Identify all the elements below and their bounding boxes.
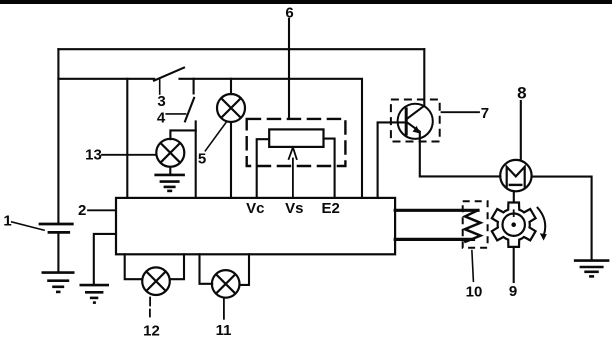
- motor underline bar: [509, 184, 523, 186]
- wire collector drop from top line: [423, 49, 425, 106]
- leader line from label 6 to sensor box: [288, 19, 290, 119]
- wire pot left to Vc pin: [257, 139, 270, 198]
- wiper arrow shaft (Vs): [292, 159, 294, 198]
- gear center dot: [511, 222, 516, 227]
- wire lamp 11 left: [200, 254, 213, 283]
- transistor collector diagonal: [406, 106, 424, 120]
- wire ECU to resistor 10 upper: [395, 209, 478, 212]
- leader for label 7: [442, 111, 480, 113]
- motor 8 circle: [500, 160, 531, 191]
- svg-text:4: 4: [157, 109, 166, 126]
- leader for label 2: [88, 209, 116, 211]
- wire top supply line: [58, 48, 424, 50]
- svg-text:1: 1: [3, 213, 11, 230]
- wire battery-to-top-line vertical: [57, 49, 59, 222]
- wire pot right to E2 pin: [324, 139, 335, 198]
- wire motor right to ground: [532, 177, 592, 260]
- wire ECU to resistor 10 lower: [395, 238, 473, 241]
- transistor Q7 circle: [398, 104, 433, 139]
- wire lamp 11 right: [240, 254, 250, 285]
- lamp 12: [142, 267, 170, 295]
- wire lamp 13 top L-connection: [170, 130, 195, 139]
- resistor R10 zigzag: [465, 210, 481, 242]
- dashed box 6 (throttle sensor): [247, 119, 346, 166]
- potentiometer body: [269, 129, 323, 147]
- ground under ECU left wire: [80, 285, 110, 303]
- wire from label 8 to motor top: [520, 101, 522, 160]
- wire lamp 12 right: [170, 254, 184, 279]
- ECU box 2: [116, 198, 395, 254]
- gear 9 outline: [492, 203, 536, 247]
- rotation arrow arc: [537, 207, 545, 235]
- svg-text:E2: E2: [322, 200, 340, 217]
- wire below gear to label 9: [513, 248, 515, 282]
- transistor dashed box 7: [391, 100, 440, 142]
- wire base from ECU pin to transistor: [378, 122, 404, 197]
- gear shaft segment inside tooth: [513, 209, 515, 217]
- ground at far right (motor return): [574, 261, 610, 277]
- leader for label 12 (broken): [149, 298, 151, 317]
- resistor 10 dashed box: [463, 201, 488, 248]
- wire lamp 13 bottom to ground: [169, 167, 171, 175]
- leader for label 4: [166, 113, 185, 115]
- svg-text:10: 10: [466, 283, 483, 300]
- motor M glyph: [507, 167, 525, 188]
- wire switch 4 to ECU pin: [195, 121, 197, 197]
- svg-text:5: 5: [198, 151, 206, 168]
- wire motor bottom to gear: [513, 191, 515, 201]
- svg-text:3: 3: [157, 93, 165, 110]
- svg-text:2: 2: [78, 202, 86, 219]
- wire lamp 12 left: [125, 254, 143, 279]
- switch 4 blade: [185, 98, 194, 122]
- leader for label 13: [102, 154, 157, 156]
- wire tap x127 down to ECU pin: [126, 79, 128, 198]
- top border bar: [0, 0, 612, 4]
- ground under battery: [42, 273, 75, 292]
- svg-text:12: 12: [143, 323, 160, 340]
- transistor emitter diagonal: [406, 122, 419, 132]
- gear inner circle: [503, 214, 525, 236]
- lamp 5: [217, 94, 245, 122]
- transistor base bar: [405, 107, 408, 135]
- svg-text:9: 9: [509, 283, 517, 300]
- lamp 11: [212, 270, 240, 298]
- leader for label 5: [205, 122, 226, 151]
- leader for label 11: [223, 298, 225, 319]
- lamp 13: [156, 139, 184, 167]
- wire ECU left side to ground: [94, 234, 116, 285]
- wiper arrowhead: [289, 147, 297, 159]
- switch 4 upper stub: [193, 79, 195, 94]
- wire second line left of switch 3: [58, 78, 154, 80]
- wire emitter run to motor: [420, 175, 500, 177]
- wire second line right of switch 3 down to ECU: [180, 79, 363, 198]
- leader for label 1: [12, 222, 44, 230]
- leader for label 10: [472, 251, 474, 282]
- switch 3 leader stem to label 3: [159, 80, 161, 94]
- battery B1 stem to ground: [57, 234, 59, 272]
- transistor emitter arrowhead: [413, 126, 421, 134]
- svg-text:11: 11: [216, 322, 232, 339]
- battery B1 plates: [39, 224, 74, 232]
- wire lamp 5 top stub: [230, 79, 232, 94]
- ground under lamp 13: [154, 175, 185, 191]
- svg-text:7: 7: [481, 105, 489, 122]
- rotation arrowhead: [540, 233, 547, 240]
- svg-text:Vs: Vs: [285, 200, 303, 217]
- wire lamp 5 bottom to ECU pin: [230, 122, 232, 198]
- svg-text:Vc: Vc: [246, 200, 264, 217]
- wire emitter drop: [419, 132, 421, 176]
- switch 3 blade: [154, 68, 184, 81]
- svg-text:13: 13: [85, 147, 102, 164]
- svg-text:8: 8: [517, 83, 526, 102]
- svg-text:6: 6: [285, 5, 293, 22]
